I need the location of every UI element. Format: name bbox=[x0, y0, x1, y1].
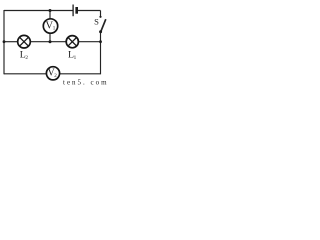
svg-text:ten5. com: ten5. com bbox=[63, 79, 109, 87]
svg-text:S: S bbox=[94, 17, 99, 27]
svg-text:1: 1 bbox=[74, 55, 77, 61]
svg-text:2: 2 bbox=[25, 55, 28, 61]
